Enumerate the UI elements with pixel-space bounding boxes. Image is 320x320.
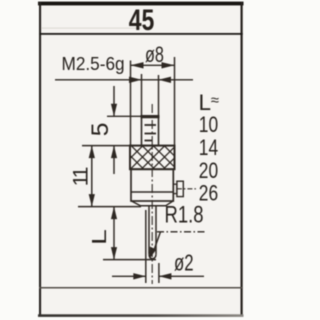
footer separator line [39,287,243,289]
flange chamfer left [131,201,140,206]
arrow dia2 right [159,273,172,279]
stud outline [142,116,159,146]
extension line body bottom [78,206,141,208]
svg-text:14: 14 [199,136,218,160]
arrow dia8 right [162,62,175,68]
shaft tip radius [149,254,156,259]
extension line tip bottom [103,259,156,261]
arrow L down [111,247,117,260]
clamp screw axis [177,188,198,190]
extension line knurl top [82,145,131,147]
arrow 5 up [111,146,117,159]
arrow M2.5 right [159,77,172,83]
arrow M2.5 left [129,77,142,83]
stud thread tick 3 [145,140,153,142]
shaft right edge [155,206,157,254]
centerline [151,104,153,284]
stud thread tick 2 [145,133,157,135]
clamp screw neck [173,184,177,193]
extension line stud right [158,75,160,116]
right border [241,2,243,317]
shaft left edge [148,206,150,254]
stud top face [141,115,160,118]
svg-text:20: 20 [199,159,218,183]
svg-text:R1.8: R1.8 [165,201,204,228]
flange bottom face [140,205,166,207]
svg-text:L: L [89,229,111,245]
knurl crosshatch [119,145,199,170]
extension line stud top [107,115,142,117]
svg-text:11: 11 [70,167,93,187]
extension line stud left [141,74,143,116]
extension line shaft left [145,210,147,283]
flange chamfer right [166,201,173,206]
header separator line [39,33,243,35]
dim line diameter 2 right [159,275,204,277]
top border [38,2,244,6]
extension line knurl left [130,61,132,146]
dim line diameter 2 left [112,275,146,277]
arrow dia2 left [133,273,146,279]
dim line diameter 8 [131,64,175,66]
leader R1.8 diagonal [154,232,161,250]
dim line M2.5-6g leader [55,79,193,81]
svg-text:10: 10 [199,113,218,137]
clamp screw head [177,181,183,196]
arrow 5 down [111,104,117,117]
dim line 5 upper [113,86,115,116]
svg-text:45: 45 [129,3,155,36]
stud thread tick 1 [145,124,157,126]
svg-text:ø2: ø2 [174,251,194,276]
extension line knurl right [174,57,176,146]
extension line shaft right [158,263,160,283]
svg-text:5: 5 [87,123,114,137]
arrow 11 down [89,194,95,207]
arrow 11 up [89,146,95,159]
dim line 5 lower [113,146,115,174]
leader R1.8 horizontal [157,231,206,233]
left border [39,2,41,317]
arrow L up [111,207,117,220]
arrow dia8 left [131,62,144,68]
panel interior [39,2,243,316]
dim line L [113,207,115,260]
arrow R1.8 tip [149,247,156,260]
svg-text:M2.5-6g: M2.5-6g [62,54,125,75]
svg-text:≈: ≈ [211,92,219,109]
svg-text:ø8: ø8 [145,42,164,67]
svg-text:L: L [199,90,212,115]
bottom border [0,0,1,1]
body outline [131,169,173,201]
knurl outline [130,146,175,170]
body groove line [131,191,173,193]
faint header scan line [41,28,141,29]
dim line 11 [91,146,93,207]
